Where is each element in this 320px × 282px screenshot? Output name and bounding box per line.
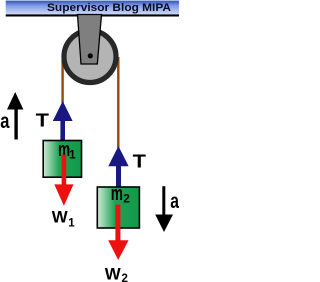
banner header bar [6, 1, 179, 15]
tension arrow T2 (right, blue, up) [108, 146, 128, 187]
svg-text:a: a [0, 110, 9, 133]
weight arrow W2 (red, down) [108, 205, 128, 260]
svg-text:Supervisor Blog MIPA: Supervisor Blog MIPA [47, 2, 171, 14]
svg-text:T: T [36, 111, 49, 131]
mass block m2 [97, 187, 139, 228]
svg-text:1: 1 [68, 218, 75, 230]
svg-text:1: 1 [69, 148, 76, 162]
pulley axle [88, 53, 93, 58]
label m2 [111, 183, 131, 206]
svg-text:a: a [170, 190, 179, 213]
svg-text:m: m [111, 183, 123, 205]
label W2 [105, 265, 128, 282]
weight arrow W1 (red, down) [54, 155, 73, 206]
acceleration arrow a2 (right, black, down) [155, 186, 173, 232]
svg-text:W: W [105, 265, 122, 282]
svg-text:T: T [133, 151, 146, 171]
mass block m1 [43, 141, 81, 178]
label m1 [58, 139, 76, 162]
acceleration arrow a1 (left, black, up) [7, 92, 23, 140]
tension arrow T1 (left, blue, up) [53, 101, 73, 140]
svg-text:2: 2 [123, 192, 130, 206]
pulley support bracket [78, 15, 102, 65]
banner black underline [6, 14, 179, 16]
svg-text:W: W [52, 208, 69, 227]
label W1 [52, 208, 76, 230]
wire: left rope [61, 60, 63, 104]
svg-text:2: 2 [122, 273, 128, 282]
wire: right rope [117, 57, 119, 148]
pulley wheel [64, 31, 116, 83]
